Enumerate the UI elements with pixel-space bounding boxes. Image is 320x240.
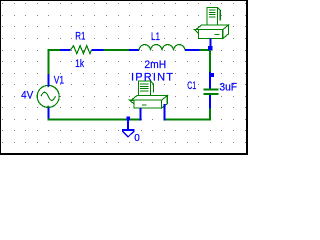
ground bar (122, 129, 135, 131)
junction dot top right (208, 46, 212, 50)
voltage source V1 tick top (47, 85, 49, 87)
printer U3 front face (134, 100, 162, 108)
svg-text:0: 0 (134, 133, 140, 144)
svg-text:1k: 1k (75, 58, 84, 70)
svg-text:R1: R1 (75, 30, 85, 42)
capacitor C1 pin bottom (209, 95, 211, 108)
wire right vertical lower and bottom right corner (165, 108, 211, 119)
svg-text:L1: L1 (151, 31, 160, 43)
voltage source V1 circle (37, 85, 59, 107)
printer U3 beak (130, 100, 134, 104)
wire right vertical upper (209, 50, 211, 72)
printer U2 body top face (196, 25, 229, 30)
printer U3 (IPRINT middle): paper (130, 81, 168, 108)
svg-text:IPRINT: IPRINT (131, 71, 173, 83)
wire top-left corner to R1 (48, 49, 61, 51)
resistor R1 pin right (92, 49, 104, 51)
capacitor C1 pin top (209, 72, 211, 89)
wire L1 to junction (200, 49, 212, 51)
voltage source V1 tick bottom (47, 106, 49, 108)
svg-text:2mH: 2mH (144, 59, 166, 71)
capacitor C1 plates (204, 89, 219, 94)
inductor L1 coils (139, 45, 185, 51)
voltage source V1 pin top (48, 74, 50, 87)
wire R1 to L1 (104, 49, 130, 51)
ground V (122, 131, 134, 137)
ground stem (127, 121, 129, 130)
svg-text:3uF: 3uF (219, 81, 237, 93)
printer U3 pin right (164, 104, 166, 121)
voltage source V1 sine (41, 92, 55, 100)
resistor R1 zigzag (71, 46, 92, 54)
inductor L1 pin left (129, 49, 139, 51)
printer U2 front face (198, 30, 222, 39)
printer U2 side face (223, 25, 229, 38)
printer U3 slot (142, 104, 147, 106)
inductor L1 pin right (185, 49, 200, 51)
printer U2 (VPRINT1 top right): paper (194, 7, 228, 38)
svg-text:4V: 4V (21, 90, 34, 102)
printer U2 pin (210, 39, 212, 48)
frame border (0, 0, 248, 155)
capacitor C1 pin marker (211, 73, 215, 77)
printer U3 pin left (140, 108, 142, 121)
svg-text:C1: C1 (187, 80, 196, 92)
printer U2 slot (215, 34, 220, 36)
voltage source V1 pin bottom (48, 108, 50, 121)
junction dot ground (126, 117, 130, 121)
resistor R1 pin left (60, 49, 71, 51)
printer U3 side face (162, 96, 168, 108)
printer U3 body top face (131, 96, 167, 101)
grid dots (2, 3, 246, 143)
svg-text:V1: V1 (54, 75, 64, 87)
wire bottom rail left (48, 119, 141, 121)
printer U2 beak (194, 30, 198, 34)
wire left vertical (48, 49, 50, 74)
